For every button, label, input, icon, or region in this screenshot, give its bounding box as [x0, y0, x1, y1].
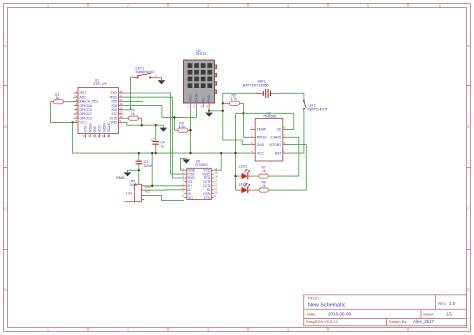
capacitor C1: [151, 125, 165, 153]
svg-text:10: 10: [83, 134, 87, 138]
svg-text:A: A: [4, 43, 7, 48]
wire U1 GND row: [123, 122, 163, 125]
wire VCC rail down: [73, 122, 251, 153]
svg-text:C: C: [467, 206, 470, 211]
svg-text:2018-06-09: 2018-06-09: [328, 312, 352, 317]
node LED rail junction: [234, 152, 236, 154]
wire RXD to U5: [123, 97, 184, 178]
U2 pin numbers: [188, 105, 209, 109]
svg-text:VCC: VCC: [257, 151, 265, 155]
U5 left pin stubs: [184, 170, 187, 197]
svg-text:/STDBY: /STDBY: [269, 143, 282, 147]
svg-text:LED1: LED1: [239, 165, 248, 169]
wire CE line: [236, 113, 294, 129]
svg-text:C2: C2: [151, 138, 155, 142]
svg-text:1k: 1k: [131, 112, 135, 116]
title block frame: [304, 295, 467, 326]
svg-text:B: B: [4, 124, 7, 129]
svg-text:IO9: IO9: [93, 126, 97, 132]
wire R2 to IO15: [123, 117, 125, 119]
node JP1 vbus rail junction: [151, 152, 153, 154]
U5 right pin names: [202, 168, 210, 199]
U1 bottom pin numbers: [83, 134, 110, 138]
wire R5 right down to PROG: [244, 103, 251, 137]
svg-text:XO: XO: [188, 196, 193, 200]
wire U5 GND pin wrap: [181, 159, 187, 171]
svg-text:VCC: VCC: [80, 121, 88, 125]
border column ticks bottom: [88, 328, 408, 332]
svg-text:/CHRG: /CHRG: [270, 136, 281, 140]
node C1 rail junction: [155, 152, 157, 154]
ground symbol at C3: [124, 172, 132, 176]
wire R2 right down to GND row: [141, 118, 143, 125]
wire JP1 vbus up to rail: [151, 153, 153, 186]
border column ticks top: [88, 4, 408, 8]
node R4 data junction: [173, 116, 175, 118]
U2 grid squares: [188, 63, 212, 88]
svg-text:1-5A: 1-5A: [126, 191, 134, 195]
border row ticks right: [467, 86, 471, 250]
wire U2 VCC down to rail: [190, 108, 192, 154]
wire U2 DATA down: [196, 108, 198, 118]
svg-text:CTS: CTS: [204, 196, 210, 200]
svg-text:CS0: CS0: [84, 125, 88, 132]
U5 left pin numbers: [182, 167, 184, 198]
svg-text:VCC: VCC: [189, 95, 193, 102]
svg-text:B: B: [467, 124, 470, 129]
svg-text:1u: 1u: [161, 145, 165, 149]
svg-text:1.0: 1.0: [449, 301, 456, 306]
svg-text:GND: GND: [116, 175, 125, 180]
svg-text:PROG: PROG: [257, 136, 267, 140]
wire switch to BAT pin: [285, 110, 304, 153]
svg-text:15: 15: [107, 134, 111, 138]
svg-text:CH340G: CH340G: [195, 163, 208, 167]
wire JP1 p1 to U5 D+: [144, 185, 184, 187]
U2 pin stubs: [191, 103, 210, 108]
U5 right pin stubs: [211, 170, 214, 197]
svg-text:ESP-12F: ESP-12F: [94, 82, 107, 86]
svg-text:1k: 1k: [262, 184, 266, 188]
node R5 left junction: [222, 102, 224, 104]
switch U4.2: [303, 100, 328, 111]
wire JP1 p3 staircase: [144, 195, 184, 200]
U3 right pin stubs: [283, 129, 286, 153]
node R4 vcc junction: [189, 129, 191, 131]
svg-text:USB: USB: [130, 183, 138, 187]
svg-text:Sheet:: Sheet:: [423, 312, 435, 317]
node JP1 vbus line junction: [151, 185, 153, 187]
title block texts: [306, 296, 447, 325]
U1 bottom pin names vertical: [84, 122, 112, 132]
U1 left pin names: [80, 91, 98, 120]
resistor R4: [174, 122, 190, 133]
border row letters: [4, 43, 470, 292]
wire R1 to EN pin: [67, 101, 74, 103]
node LED1 junction: [234, 175, 236, 177]
svg-text:LED2: LED2: [239, 182, 248, 186]
wire C3 to ground: [128, 164, 139, 172]
wire LED feed vertical: [235, 113, 237, 190]
svg-text:1/1: 1/1: [446, 312, 453, 317]
svg-text:13: 13: [97, 134, 101, 138]
svg-text:D: D: [4, 287, 7, 292]
U1 left pin stubs: [74, 93, 79, 122]
U3 pin names: [257, 128, 267, 156]
wire CHRG to R7: [268, 137, 299, 176]
node DHT GND line junction: [222, 110, 224, 112]
wire U2 GND to battery minus line: [209, 110, 223, 112]
svg-text:4.7k: 4.7k: [179, 125, 186, 129]
svg-text:Alex_2k17: Alex_2k17: [413, 319, 435, 324]
node VCC junction at U1: [71, 121, 73, 123]
svg-text:C: C: [4, 206, 7, 211]
svg-text:1k: 1k: [56, 96, 60, 100]
svg-text:DATA: DATA: [195, 93, 199, 102]
svg-text:BAT: BAT: [275, 151, 281, 155]
svg-text:DHT22: DHT22: [196, 52, 207, 56]
svg-text:REV: REV: [438, 301, 447, 306]
svg-text:A: A: [467, 43, 470, 48]
capacitor C3: [136, 153, 153, 168]
U5 left pin names: [188, 168, 196, 199]
svg-text:TEMP: TEMP: [257, 128, 267, 132]
svg-text:TP4056E: TP4056E: [263, 115, 278, 119]
svg-text:MOSI: MOSI: [102, 123, 106, 132]
node R5 CE junction: [242, 112, 244, 114]
svg-text:IO10: IO10: [98, 125, 102, 132]
wire TXD to U5: [123, 93, 184, 174]
wire LED2 to R6: [251, 189, 259, 191]
U1 right pin names: [110, 91, 118, 120]
svg-text:New Schematic: New Schematic: [308, 302, 346, 308]
wire R4 left leg up: [173, 117, 175, 130]
U1 right pin numbers: [120, 90, 124, 123]
svg-text:D: D: [467, 287, 470, 292]
border row ticks left: [4, 86, 8, 250]
battery BAT1: [243, 80, 275, 99]
node U2 GND junction: [208, 110, 210, 112]
node R2 GND junction: [141, 124, 143, 126]
node U5 VCC rail junction: [220, 152, 222, 154]
sensor U2 DHT22 body: [184, 49, 217, 103]
node C3 ground junction: [138, 169, 140, 171]
svg-text:GND: GND: [207, 94, 211, 102]
U1 bottom pin stubs: [86, 134, 110, 138]
resistor R7: [259, 165, 269, 178]
svg-text:14: 14: [102, 134, 106, 138]
wire battery minus line: [223, 93, 261, 144]
svg-text:11: 11: [88, 134, 91, 138]
U2 pin names vertical: [189, 93, 212, 102]
U3 left pin stubs: [250, 129, 255, 153]
wire IO4 to DHT data: [123, 106, 197, 118]
svg-text:SwitchSx4x2: SwitchSx4x2: [136, 70, 155, 74]
LED LED2: [236, 182, 252, 193]
svg-text:Date:: Date:: [307, 312, 317, 317]
node C1 top junction: [155, 124, 157, 126]
svg-text:Drawn By:: Drawn By:: [389, 319, 407, 324]
wire LED1 to R7: [251, 175, 259, 177]
switch KEY1: [132, 67, 158, 79]
resistor R1: [51, 93, 67, 104]
charger U3 TP4056E body: [255, 111, 283, 161]
svg-text:4.7k: 4.7k: [231, 97, 238, 101]
uart U5 CH340G body: [187, 160, 212, 200]
wire JP1 p2 to U5 D-: [144, 189, 184, 191]
wire STDBY to R6: [268, 145, 307, 191]
wire R1 left down to VCC: [51, 102, 73, 123]
U1 right pin stubs: [119, 93, 124, 122]
resistor R6: [259, 181, 269, 193]
U1 left pin numbers: [75, 90, 77, 123]
ground symbol at U2: [205, 111, 213, 117]
wire U2 GND down: [208, 108, 210, 111]
svg-text:100nF: 100nF: [144, 164, 153, 168]
svg-text:1k: 1k: [262, 169, 266, 173]
wire KEY1 left to IO0: [123, 78, 133, 110]
node C3 rail junction: [138, 152, 140, 154]
svg-text:BATTERY18650: BATTERY18650: [243, 84, 269, 88]
ESP module U1 body: [78, 78, 119, 133]
connector JP1 USB: [125, 179, 153, 201]
wire KEY1 right to ground: [156, 78, 162, 81]
svg-text:NC: NC: [201, 97, 205, 102]
svg-text:EasyEDA V5.5.12: EasyEDA V5.5.12: [306, 319, 339, 324]
ground symbol at KEY1: [158, 80, 166, 84]
wire C3 junction down to JP1 top: [138, 170, 140, 184]
ground symbol mid: [160, 125, 168, 132]
U3 pin numbers: [251, 126, 285, 154]
svg-text:CE: CE: [277, 128, 282, 132]
wire U5 VCC to rail: [214, 153, 221, 170]
resistor R2: [125, 108, 142, 120]
U5 right pin numbers: [214, 167, 218, 198]
resistor R5: [223, 94, 244, 106]
node U2 VCC rail junction: [189, 152, 191, 154]
LED LED1: [236, 165, 252, 180]
wire battery plus to switch: [275, 93, 304, 100]
svg-text:MISO: MISO: [88, 123, 92, 132]
svg-text:SWITCHPOT: SWITCHPOT: [307, 107, 327, 111]
svg-text:SCLK: SCLK: [107, 122, 111, 132]
wire IO5 stub: [123, 100, 143, 102]
ground symbol at U5: [182, 159, 190, 163]
svg-text:TITLE:: TITLE:: [307, 296, 319, 301]
svg-text:GND: GND: [257, 143, 265, 147]
svg-text:12: 12: [93, 134, 97, 138]
